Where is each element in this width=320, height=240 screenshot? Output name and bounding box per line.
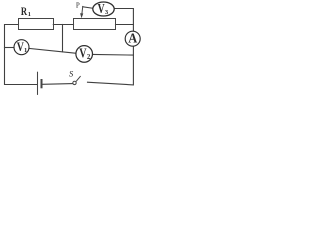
wire wiper to V3 [83, 7, 93, 9]
wire junction vertical [62, 25, 64, 52]
wire V1 to V2 [29, 48, 76, 53]
wire R1 to P [53, 24, 73, 26]
rheostat P box [74, 19, 116, 30]
wire V2 to right rail [93, 53, 134, 56]
voltmeter V3 [93, 2, 114, 16]
svg-text:P: P [76, 2, 80, 10]
voltmeter V1 [14, 40, 29, 55]
wire right rail lower [88, 46, 134, 85]
svg-text:V: V [98, 1, 105, 16]
svg-text:1: 1 [28, 11, 31, 18]
switch S lever [76, 76, 81, 82]
wire battery to switch [43, 83, 73, 86]
ammeter A [125, 31, 140, 46]
battery cell: short thick plate [41, 79, 43, 88]
wire left rail [5, 25, 37, 85]
wire V1 left [5, 47, 15, 49]
svg-text:2: 2 [87, 54, 91, 61]
switch S hinge [73, 81, 76, 84]
wire V3 to right rail [114, 9, 133, 32]
voltmeter V2 [76, 46, 93, 63]
battery cell: long plate [37, 72, 39, 95]
svg-text:A: A [128, 32, 138, 47]
svg-text:R: R [21, 4, 28, 18]
resistor R1 [19, 19, 54, 30]
svg-text:V: V [79, 46, 87, 61]
svg-text:1: 1 [24, 47, 27, 54]
svg-text:S: S [69, 68, 74, 78]
rheostat wiper arrow [80, 6, 83, 18]
wire P right to rail [116, 24, 134, 26]
